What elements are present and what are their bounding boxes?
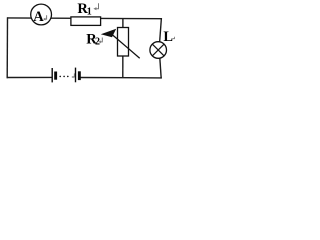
wire left: [6, 17, 8, 78]
wire top: [7, 17, 161, 20]
svg-text:L: L: [163, 29, 173, 45]
svg-text:1: 1: [87, 6, 92, 17]
battery cell2 long plate: [75, 68, 77, 83]
formatting mark after R2: [99, 38, 103, 44]
rheostat R2 arrowhead: [101, 29, 116, 37]
wire bottom-left: [7, 76, 53, 78]
battery cell1 short thick plate: [54, 72, 57, 80]
resistor R1 box: [71, 17, 101, 26]
wire right lower: [160, 58, 161, 79]
ammeter A: [31, 4, 52, 25]
battery dots: [59, 76, 61, 78]
formatting mark after R1: [93, 3, 98, 10]
formatting mark in battery: [71, 73, 74, 78]
battery cell2 short thick plate: [78, 71, 81, 80]
lamp L circle: [150, 42, 167, 59]
battery cell1 long plate: [51, 68, 53, 82]
wire right upper: [160, 18, 162, 43]
wire bottom-right: [80, 77, 162, 79]
formatting mark after A: [43, 15, 46, 20]
lamp X: [152, 44, 164, 56]
wire R2 branch: [122, 18, 124, 77]
rheostat R2 box: [118, 28, 129, 57]
rheostat R2 arrow: [111, 34, 140, 59]
svg-text:A: A: [33, 9, 44, 25]
formatting mark after L (clipped): [173, 37, 175, 39]
